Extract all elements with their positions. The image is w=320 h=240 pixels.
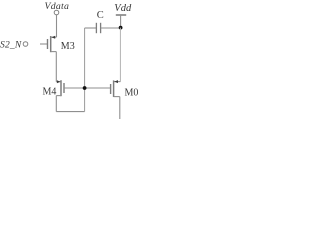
svg-text:M0: M0 bbox=[125, 87, 139, 98]
wire M3 source to M4 drain bbox=[55, 52, 57, 82]
wire M4 source down bbox=[55, 96, 57, 112]
transistor M0 bbox=[111, 80, 121, 97]
terminal Vdata bbox=[54, 10, 59, 15]
junction Vdd node bbox=[119, 26, 123, 30]
wire capacitor left bbox=[85, 27, 97, 29]
power Vdd bbox=[116, 14, 126, 16]
wire gate bus M4 to M0 bbox=[64, 87, 111, 89]
svg-text:M4: M4 bbox=[43, 86, 57, 97]
svg-text:M3: M3 bbox=[61, 41, 75, 52]
wire M0 source down bbox=[119, 97, 121, 119]
wire S2_N to M3 gate bbox=[40, 43, 48, 45]
transistor M3 bbox=[48, 36, 57, 53]
terminal S2_N bbox=[23, 42, 28, 47]
svg-text:S2_N: S2_N bbox=[0, 41, 22, 51]
transistor M4 bbox=[56, 80, 64, 96]
capacitor C bbox=[96, 23, 100, 33]
wire storage node vertical bbox=[84, 28, 86, 112]
svg-text:Vdd: Vdd bbox=[114, 3, 132, 14]
wire junction to M0 drain bbox=[119, 28, 121, 82]
wire Vdd to junction bbox=[120, 15, 122, 28]
wire capacitor right bbox=[101, 27, 121, 29]
svg-text:C: C bbox=[97, 10, 104, 21]
wire bottom horizontal bbox=[56, 111, 84, 113]
wire Vdata to M3 drain bbox=[56, 15, 58, 37]
junction gate node bbox=[83, 86, 87, 90]
